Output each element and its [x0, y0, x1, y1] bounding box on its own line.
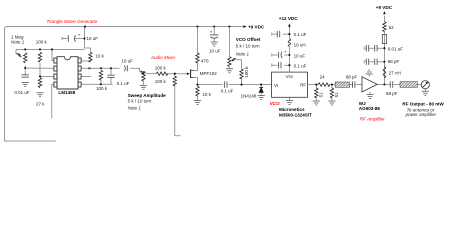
svg-text:Note 1: Note 1 — [236, 51, 250, 56]
svg-text:100 k: 100 k — [96, 86, 108, 91]
wire 10k bottom to pin — [81, 60, 90, 63]
svg-text:+9 VDC: +9 VDC — [248, 24, 265, 29]
wire sweep drop column — [175, 74, 181, 136]
wire +9V column right — [383, 16, 385, 85]
wire offset wiper to 100k — [233, 60, 242, 85]
ground below amp — [366, 95, 373, 99]
ground under 51 left — [313, 101, 320, 105]
capacitor 0.1 uF (x=111) — [107, 75, 114, 77]
ground under 0.01uF — [22, 83, 29, 87]
junction dots top area — [84, 26, 86, 28]
wire 100k1 to gate — [167, 73, 187, 75]
capacitor 10 uF electrolytic (Vcc) — [279, 52, 283, 58]
diode D1 1N4148 — [259, 87, 263, 92]
resistor 51 (right shunt) — [330, 88, 333, 98]
junction dots sweep — [174, 73, 176, 75]
VCO module U3 box — [272, 72, 308, 97]
svg-text:0.01 uF: 0.01 uF — [388, 47, 404, 52]
capacitor 0.1 uF (VI coupling) — [225, 81, 227, 87]
wire Vcc caps leads — [272, 33, 290, 67]
op-amp U1 LM1458 DIP — [54, 57, 81, 89]
svg-text:10 uF: 10 uF — [87, 36, 99, 41]
svg-text:+: + — [210, 29, 213, 34]
wire pot wiper riser — [16, 49, 22, 57]
svg-text:AG603-86: AG603-86 — [359, 106, 381, 111]
svg-text:+12 VDC: +12 VDC — [279, 16, 298, 21]
wire diode stub — [260, 85, 262, 96]
svg-text:27 k: 27 k — [36, 101, 45, 106]
resistor 51 (left shunt) — [315, 88, 318, 98]
wire pin1 feed — [52, 49, 54, 60]
svg-text:RF Output - 80 mW: RF Output - 80 mW — [402, 102, 444, 107]
svg-text:10 uF: 10 uF — [121, 58, 133, 63]
stripline 50 ohm (left) — [335, 82, 349, 87]
capacitor 0.1 uF (Vcc) — [279, 62, 281, 68]
wire VCO offset pot column — [228, 27, 230, 69]
wire pin4R row to cap bottom — [81, 83, 113, 85]
svg-text:0.1 uF: 0.1 uF — [221, 88, 234, 93]
label +12 VDC with arrow — [288, 24, 291, 27]
svg-text:10 k: 10 k — [202, 92, 211, 97]
svg-text:Audio Mixer: Audio Mixer — [150, 55, 176, 60]
ground under 27k — [36, 93, 43, 97]
capacitor 68 pF (amp input) — [353, 81, 355, 87]
junction dots VCO area — [240, 84, 242, 86]
resistor 27 k — [38, 78, 41, 88]
svg-text:0.1 uF: 0.1 uF — [117, 81, 130, 86]
capacitor 0.1 uF (+12 rail) — [277, 31, 279, 37]
resistor 470 — [196, 53, 199, 63]
resistor 100 k horizontal (to gate) — [156, 72, 168, 75]
potentiometer VCO offset 5k — [228, 57, 231, 67]
capacitor 10 uF electrolytic (mixer) — [124, 65, 127, 71]
wire rail drop to 10k — [85, 27, 91, 52]
resistor 100 k (feedback) — [38, 52, 41, 62]
resistor 10 k (to rail) — [89, 52, 92, 62]
wire pin4 down to ICL7660 — [52, 85, 54, 119]
svg-text:10 uH: 10 uH — [294, 42, 306, 47]
svg-text:power amplifier: power amplifier — [405, 112, 437, 117]
capacitor 10 uF electrolytic (rail bypass) — [210, 35, 219, 38]
capacitor 68 pF (output) — [390, 81, 392, 87]
resistor 100 k (offset, rotated label) — [240, 69, 243, 79]
svg-text:Vcc: Vcc — [286, 74, 294, 79]
svg-text:100 k: 100 k — [155, 65, 167, 70]
wire pot to 100k row — [146, 73, 157, 75]
wire MPF102 drain to 470 to rail — [194, 27, 198, 71]
resistor 100 k (gate to source) — [173, 76, 176, 86]
wire 10uF-B to pot — [130, 68, 142, 74]
svg-text:RF Amplifier: RF Amplifier — [360, 117, 385, 122]
svg-text:68 pF: 68 pF — [388, 59, 400, 64]
svg-text:52: 52 — [389, 25, 395, 30]
svg-text:MPF102: MPF102 — [200, 71, 218, 76]
wire RF row — [308, 84, 363, 86]
wire VCO ground stem — [288, 97, 290, 100]
svg-text:M3500-1324S/T: M3500-1324S/T — [279, 112, 312, 117]
wire 100k to 27k column — [40, 63, 54, 76]
junction dots RF chain — [315, 84, 317, 86]
svg-text:Note 1: Note 1 — [11, 40, 25, 45]
inductor 27 nH — [383, 67, 386, 78]
label +9 VDC with arrow (top right) — [383, 11, 386, 14]
wire pin2R row — [81, 67, 119, 69]
svg-text:24: 24 — [320, 75, 326, 80]
wire +9V top rail — [5, 27, 247, 141]
wire 100k3 bottom — [101, 68, 111, 84]
capacitor 0.01 uF — [22, 75, 29, 77]
svg-text:27 nH: 27 nH — [389, 70, 401, 75]
svg-text:51: 51 — [334, 92, 339, 98]
ground under connector — [422, 91, 429, 95]
junction dots mixer — [100, 67, 102, 69]
transistor Q1 MPF102 — [190, 69, 192, 78]
wire MPF102 source down — [194, 78, 223, 101]
svg-text:Sweep Amplitude: Sweep Amplitude — [128, 93, 167, 98]
ferrite bead on lead — [382, 34, 386, 43]
svg-text:10 uF: 10 uF — [209, 49, 221, 54]
label +9 VDC — [243, 25, 246, 28]
resistor 52 — [383, 22, 386, 32]
svg-text:0.1 uF: 0.1 uF — [294, 32, 307, 37]
svg-text:Triangle Wave Generator: Triangle Wave Generator — [47, 19, 99, 24]
wire 68pF/0.01uF cap rows — [364, 47, 384, 64]
wire 51 shunt stubs — [316, 85, 332, 101]
wire pot bottom to pin row — [25, 66, 54, 75]
wire 10uF cap row — [62, 37, 85, 41]
svg-text:100 k: 100 k — [244, 66, 249, 78]
svg-text:VI: VI — [274, 83, 278, 88]
svg-text:VCO Offset: VCO Offset — [236, 37, 261, 42]
wire 10uF-C from rail — [213, 27, 215, 42]
svg-text:100 k: 100 k — [36, 40, 48, 45]
ground under VCO — [286, 101, 293, 105]
ground under 51 right — [328, 101, 335, 105]
wire sweep pot ground stub — [143, 81, 145, 85]
wire amp out to connector — [377, 84, 421, 86]
ground under sweep pot — [140, 85, 147, 89]
ground under 10uF-C — [211, 42, 218, 46]
svg-text:+: + — [78, 33, 81, 38]
svg-text:5 k / 10 turn: 5 k / 10 turn — [236, 44, 260, 49]
svg-text:RF: RF — [300, 83, 306, 88]
svg-text:51: 51 — [318, 92, 323, 98]
svg-text:68 pF: 68 pF — [386, 91, 398, 96]
resistor 1 Meg pot — [24, 53, 27, 63]
signal arrow on pin2R wire — [89, 67, 92, 69]
svg-text:+: + — [284, 50, 287, 55]
svg-text:100 k: 100 k — [155, 79, 167, 84]
svg-text:68 pF: 68 pF — [346, 74, 358, 79]
svg-text:470: 470 — [201, 58, 209, 63]
wire VI row with 0.1uF — [225, 84, 271, 86]
svg-text:10 k: 10 k — [95, 54, 104, 59]
svg-text:0.1 uF: 0.1 uF — [294, 63, 307, 68]
inductor 10 uH — [288, 39, 291, 47]
stripline 50 ohm (right) — [400, 82, 417, 88]
ground above amp (inverted) — [366, 70, 373, 74]
wire pin3R stub — [81, 75, 91, 77]
svg-text:10 uF: 10 uF — [294, 54, 306, 59]
capacitor 10 uF electrolytic (top) — [68, 35, 75, 42]
potentiometer sweep amplitude 5k — [142, 71, 145, 81]
resistor 24 — [318, 83, 330, 86]
svg-text:0.01 uF: 0.01 uF — [14, 90, 30, 95]
wire top feedback row — [16, 48, 85, 50]
wire Vcc riser — [288, 24, 290, 72]
svg-text:5 k / 10 turn: 5 k / 10 turn — [128, 99, 152, 104]
ground under offset pot — [226, 69, 233, 73]
connector RF output — [421, 81, 429, 89]
amplifier U4 WJ AG603-86 — [362, 77, 377, 92]
svg-text:LM1458: LM1458 — [58, 90, 75, 95]
wire amp grounds stems — [369, 74, 425, 94]
svg-text:+9 VDC: +9 VDC — [376, 5, 393, 10]
svg-text:VCO: VCO — [270, 101, 280, 106]
svg-text:Note 1: Note 1 — [128, 106, 142, 111]
svg-text:1N4148: 1N4148 — [241, 93, 257, 98]
resistor 10 k (source) — [196, 86, 199, 96]
resistor 100 k (vertical, x=101) — [99, 70, 102, 80]
ground under 10k — [194, 100, 201, 104]
ground under 1N4148 — [258, 96, 265, 100]
